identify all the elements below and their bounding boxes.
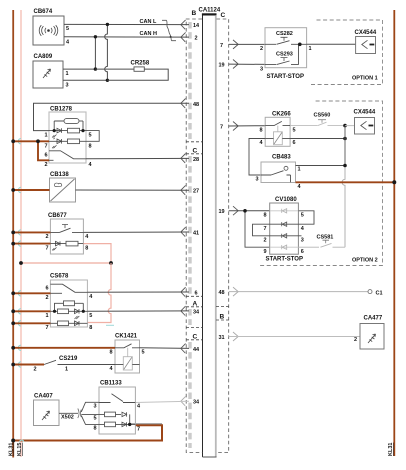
svg-text:1: 1	[46, 313, 49, 319]
CB1278 internal lamp row pin1-5	[49, 119, 86, 139]
pin B-14	[181, 20, 200, 29]
svg-text:1: 1	[298, 167, 301, 173]
svg-text:1: 1	[45, 133, 48, 139]
svg-text:B: B	[192, 10, 197, 17]
svg-text:CA809: CA809	[34, 54, 53, 60]
pin C-34	[181, 396, 200, 405]
pin labels CB1133	[94, 404, 142, 433]
wire CK266 pin6 to node	[290, 138, 345, 140]
OPTION 1 dashed border	[311, 20, 383, 85]
CB677 switch row pins 2-4	[50, 225, 83, 233]
svg-text:X502: X502	[61, 414, 74, 420]
junction CAN H	[94, 35, 97, 38]
svg-text:5: 5	[89, 133, 92, 139]
switch CS560	[290, 120, 345, 126]
pin C-19b (right)	[219, 206, 239, 215]
wire C-48 to splice C1	[229, 291, 368, 293]
transceiver CA809	[33, 61, 63, 88]
svg-text:START-STOP: START-STOP	[266, 257, 303, 263]
svg-text:B: B	[220, 314, 225, 321]
svg-text:3: 3	[256, 177, 259, 183]
svg-text:44: 44	[193, 347, 200, 353]
svg-text:KL31: KL31	[9, 443, 15, 456]
svg-text:2: 2	[46, 295, 49, 301]
CB1278 LED row pin7-8	[49, 139, 86, 148]
svg-text:CAN L: CAN L	[140, 19, 157, 25]
svg-text:2: 2	[34, 367, 37, 373]
svg-text:41: 41	[193, 231, 199, 237]
junction start-stop out	[298, 43, 302, 47]
svg-text:19: 19	[219, 63, 225, 69]
CB1133 LED row pin 8	[99, 422, 135, 427]
junction rail CS219	[11, 363, 15, 367]
svg-text:CA1124: CA1124	[199, 8, 221, 14]
junction CV1080 feed	[243, 209, 247, 213]
svg-text:C1: C1	[376, 290, 383, 296]
resistor CR258	[134, 67, 144, 71]
svg-text:8: 8	[94, 426, 97, 432]
svg-text:6: 6	[46, 286, 49, 292]
CB677 LED row pins 7-8	[50, 241, 83, 250]
junction rail CS678 pin2	[11, 291, 15, 295]
pin C-6	[181, 287, 198, 296]
junction KL31 right rail	[392, 180, 396, 184]
svg-text:START-STOP: START-STOP	[267, 74, 304, 80]
junction CB1278 pin5	[81, 129, 84, 132]
svg-text:CS560: CS560	[314, 113, 331, 119]
pin C-28	[181, 154, 199, 163]
right connector dashed outline	[216, 19, 229, 453]
OPTION 2 dashed border	[258, 101, 383, 266]
junction CB1278 pin1	[53, 129, 56, 132]
svg-text:8: 8	[85, 245, 88, 251]
splice C1	[368, 290, 372, 294]
svg-text:8: 8	[260, 128, 263, 134]
svg-text:2: 2	[260, 46, 263, 52]
wire B-31 to CA477	[229, 336, 360, 338]
svg-text:5: 5	[301, 213, 304, 219]
pin B-2	[181, 32, 198, 41]
wire CB677 pin4 to C-41	[83, 231, 189, 233]
switch CS219	[13, 360, 115, 364]
section divider B/C left	[186, 142, 203, 154]
svg-text:7: 7	[220, 125, 223, 131]
junction rail CB677 pin2	[11, 231, 15, 235]
pin labels CB677	[46, 234, 90, 251]
svg-text:3: 3	[260, 66, 263, 72]
svg-text:7: 7	[220, 43, 223, 49]
color mark KL15 bottom	[20, 440, 24, 442]
wire CS678 pin4 to C-6	[87, 291, 189, 293]
junction CAN L	[106, 23, 109, 26]
svg-text:27: 27	[193, 189, 199, 195]
svg-text:7: 7	[264, 226, 267, 232]
hop marks KL15 rail	[18, 139, 21, 368]
wire start-stop to CX4544	[307, 43, 356, 45]
wire option2 common vertical	[342, 126, 345, 248]
wire CB138 to C-27	[76, 189, 190, 191]
switch CS282	[265, 37, 307, 44]
KL31 power rail (left)	[12, 10, 14, 458]
svg-text:6: 6	[293, 140, 296, 146]
junction CS560 out	[343, 124, 347, 128]
svg-text:34: 34	[193, 309, 200, 315]
connector CX4544 option2	[355, 118, 375, 135]
left connector gray strip	[188, 22, 191, 448]
button CB483	[261, 162, 296, 183]
pin C-7b (right)	[220, 122, 238, 131]
svg-text:48: 48	[219, 290, 225, 296]
pin C-19 (right)	[219, 60, 239, 69]
svg-text:CK266: CK266	[272, 112, 291, 118]
svg-text:KL15: KL15	[17, 443, 23, 456]
wire CB483 pin1 to node	[296, 165, 346, 167]
wire C-7b to CK266 pin8	[229, 125, 266, 127]
svg-text:2: 2	[195, 36, 198, 42]
svg-text:CB1133: CB1133	[100, 381, 122, 387]
svg-text:CAN H: CAN H	[140, 31, 157, 37]
pin C-27	[181, 185, 199, 194]
wire CA809 pin1 to CAN H	[63, 37, 95, 69]
pin labels CB483	[256, 167, 302, 191]
pin labels CB1278	[45, 133, 93, 169]
svg-text:6: 6	[45, 153, 48, 159]
svg-text:5: 5	[293, 128, 296, 134]
wire X502 to CB1133 pins	[81, 402, 99, 424]
junction CB1133 pin7	[128, 423, 131, 426]
pin A-34	[181, 306, 200, 315]
relay CK266	[265, 117, 290, 146]
wire C-19 to start-stop	[229, 63, 265, 65]
wire C-19b to CV1080	[229, 211, 270, 247]
pin labels CK266	[260, 128, 296, 147]
svg-text:1: 1	[66, 71, 69, 77]
svg-text:6: 6	[195, 291, 198, 297]
svg-text:2: 2	[354, 337, 357, 343]
svg-text:CV1080: CV1080	[275, 197, 297, 203]
svg-text:CS678: CS678	[50, 274, 69, 280]
switch unit CB1133	[99, 387, 135, 434]
CB1278 switch pins 6-2-4	[49, 151, 86, 161]
svg-text:8: 8	[110, 350, 113, 356]
pin C-48 (right)	[219, 287, 239, 296]
junction KL15 bus	[19, 261, 23, 265]
wire CB677 pin8 illumination (pink)	[83, 244, 111, 263]
svg-text:2: 2	[264, 238, 267, 244]
CS678 LED row pins 7-8	[50, 321, 87, 326]
svg-text:C: C	[193, 333, 198, 340]
junction rail CS678 pin1	[11, 309, 15, 313]
wire CB483 pin3 to CK266 pin4	[249, 139, 265, 176]
svg-text:5: 5	[142, 350, 145, 356]
svg-text:3: 3	[301, 238, 304, 244]
svg-text:OPTION 1: OPTION 1	[352, 76, 378, 82]
connector CX4544 option1	[356, 37, 376, 54]
wire KL31 to CB138	[13, 189, 49, 191]
junction CB1278 elbow	[36, 139, 40, 143]
svg-text:2: 2	[45, 162, 48, 168]
wire CA407 to X502	[59, 412, 78, 414]
svg-text:CB674: CB674	[34, 9, 53, 15]
KL31 power rail (right)	[393, 10, 395, 456]
pin labels CK1421	[110, 350, 145, 373]
junction rail CB1278	[11, 139, 15, 143]
CB1133 LED row pin 5	[99, 412, 130, 424]
wire to CX4544 option2	[345, 125, 355, 127]
wire CV1080 pin3 stub	[298, 235, 301, 237]
svg-text:8: 8	[89, 143, 92, 149]
svg-text:7: 7	[45, 143, 48, 149]
control unit CB1278	[49, 112, 86, 163]
junction CB483 pin1 node	[343, 164, 347, 168]
KL31 bottom bus	[13, 424, 162, 441]
wire CA809 pin3 to CAN L	[63, 24, 107, 80]
wire CV1080 pin5-4 loop	[298, 211, 314, 224]
switch unit CS678	[50, 280, 87, 327]
svg-text:CX4544: CX4544	[355, 30, 377, 36]
pin labels CS219	[34, 367, 69, 373]
wire KL31 to CB1278 pin7	[13, 141, 49, 160]
svg-text:1: 1	[65, 367, 68, 373]
svg-text:OPTION 2: OPTION 2	[352, 258, 378, 264]
pin B-48	[181, 99, 199, 108]
junction CS678 pin1	[53, 310, 56, 313]
svg-text:CS219: CS219	[59, 356, 78, 362]
svg-text:3: 3	[94, 404, 97, 410]
junction rail CS678 pin7	[11, 321, 15, 325]
svg-text:A: A	[193, 300, 198, 307]
svg-text:CB483: CB483	[272, 155, 291, 161]
junction rail CB677 pin7	[11, 242, 15, 246]
start-stop unit OPTION1 box	[265, 28, 307, 68]
wire illumination to CS678 pin8 (pink)	[87, 263, 111, 323]
wire CAN H	[64, 36, 189, 38]
svg-text:CS282: CS282	[276, 31, 293, 37]
wire CV1080 pin7-2 loop	[253, 224, 270, 236]
load CB138	[50, 178, 76, 202]
speaker CB674	[33, 16, 64, 45]
junction rail CK1421	[11, 346, 15, 350]
pin B-31 (right)	[219, 332, 239, 341]
wire CB1278 pin1 to B-48	[34, 103, 190, 130]
wire KL31 to CS678 pin7	[13, 322, 50, 324]
svg-text:14: 14	[193, 23, 200, 29]
left connector dashed outline	[186, 19, 202, 453]
wire CK1421 pin5 to C-44	[140, 347, 190, 350]
svg-text:KL31: KL31	[388, 443, 394, 456]
svg-text:CS581: CS581	[317, 235, 334, 241]
svg-text:3: 3	[66, 83, 69, 89]
wire CB1133 pin4 to C-34	[135, 401, 189, 402]
junction CK266 pin6 node	[343, 137, 347, 141]
svg-text:5: 5	[89, 313, 92, 319]
diode matrix CV1080	[270, 203, 299, 254]
svg-text:C: C	[193, 147, 198, 154]
svg-text:CA477: CA477	[364, 316, 383, 322]
svg-text:48: 48	[193, 102, 199, 108]
key reader CA407	[34, 400, 60, 426]
pin C-7 (right top)	[220, 40, 238, 49]
wire CS678 pin5 to A-34	[87, 310, 189, 312]
junction illumination node	[109, 261, 113, 265]
junction KL31 bottom	[11, 439, 15, 443]
svg-text:6: 6	[301, 249, 304, 255]
svg-text:28: 28	[193, 157, 199, 163]
CS678 lamp row pins 1-5	[50, 301, 87, 319]
svg-text:9: 9	[264, 249, 267, 255]
svg-text:19: 19	[219, 209, 225, 215]
svg-text:CR258: CR258	[131, 61, 150, 67]
pin labels CV1080	[264, 213, 305, 255]
section divider C/B right	[216, 307, 229, 321]
pin C-41	[181, 227, 199, 236]
CB1133 switch row pins 3-4	[99, 394, 135, 403]
wire CB1278 pin4 to C-28	[86, 157, 189, 159]
junction CA809 pin3	[106, 79, 109, 82]
CB1278 pin5-8 external loop	[86, 131, 99, 142]
CS678 switch pins 6-2-4	[50, 284, 87, 293]
wire CB483 pin4 to KL31	[296, 181, 395, 183]
color mark CS678 pin8	[106, 324, 114, 326]
wire CAN L	[64, 23, 189, 25]
pin C-44	[181, 344, 200, 353]
svg-text:5: 5	[66, 26, 69, 32]
svg-text:CB1278: CB1278	[50, 107, 73, 113]
pin labels start-stop option1	[260, 46, 312, 73]
wire CR258 loop	[95, 69, 168, 80]
section divider A/C left	[186, 328, 203, 340]
svg-text:7: 7	[46, 245, 49, 251]
svg-text:CA407: CA407	[34, 394, 53, 400]
wire KL31 to CK1421 pin8	[13, 347, 115, 349]
svg-text:5: 5	[94, 416, 97, 422]
svg-text:31: 31	[219, 335, 225, 341]
junction CA809 pin1	[94, 67, 97, 70]
wire KL15 illumination bus (pink)	[21, 262, 111, 264]
switch unit CB677	[50, 219, 83, 254]
junction rail CB138	[11, 188, 15, 192]
svg-text:2: 2	[46, 234, 49, 240]
connector X502	[78, 409, 82, 419]
svg-text:C: C	[221, 12, 226, 19]
switch CS293	[265, 44, 299, 64]
pin labels CS678	[46, 286, 94, 332]
KL15 power rail (pink)	[20, 10, 22, 457]
junction CS678 pin5	[82, 310, 85, 313]
antenna unit CA477	[360, 324, 384, 350]
wire KL31 to CB677 pin2	[13, 231, 50, 233]
switch CS581	[298, 240, 345, 247]
svg-text:CX4544: CX4544	[354, 110, 376, 116]
svg-text:34: 34	[193, 400, 200, 406]
wire KL31 to CB677 pin7	[13, 243, 50, 245]
svg-text:8: 8	[89, 325, 92, 331]
svg-text:8: 8	[264, 213, 267, 219]
ECU CA1124 body	[202, 14, 217, 457]
svg-text:CS293: CS293	[276, 51, 293, 57]
twisted pair symbol	[162, 20, 176, 40]
relay CK1421	[115, 340, 140, 373]
wire KL31 to CS678 pin1	[13, 310, 50, 312]
svg-text:7: 7	[137, 427, 140, 433]
svg-text:CK1421: CK1421	[115, 334, 138, 340]
svg-text:CB677: CB677	[48, 213, 67, 219]
svg-text:1: 1	[309, 46, 312, 52]
section divider C/A left	[186, 296, 203, 307]
wire C-7 to start-stop	[229, 43, 265, 45]
svg-text:7: 7	[46, 325, 49, 331]
svg-text:CB138: CB138	[50, 172, 69, 178]
wire KL31 to CS678 pin2	[13, 292, 50, 294]
